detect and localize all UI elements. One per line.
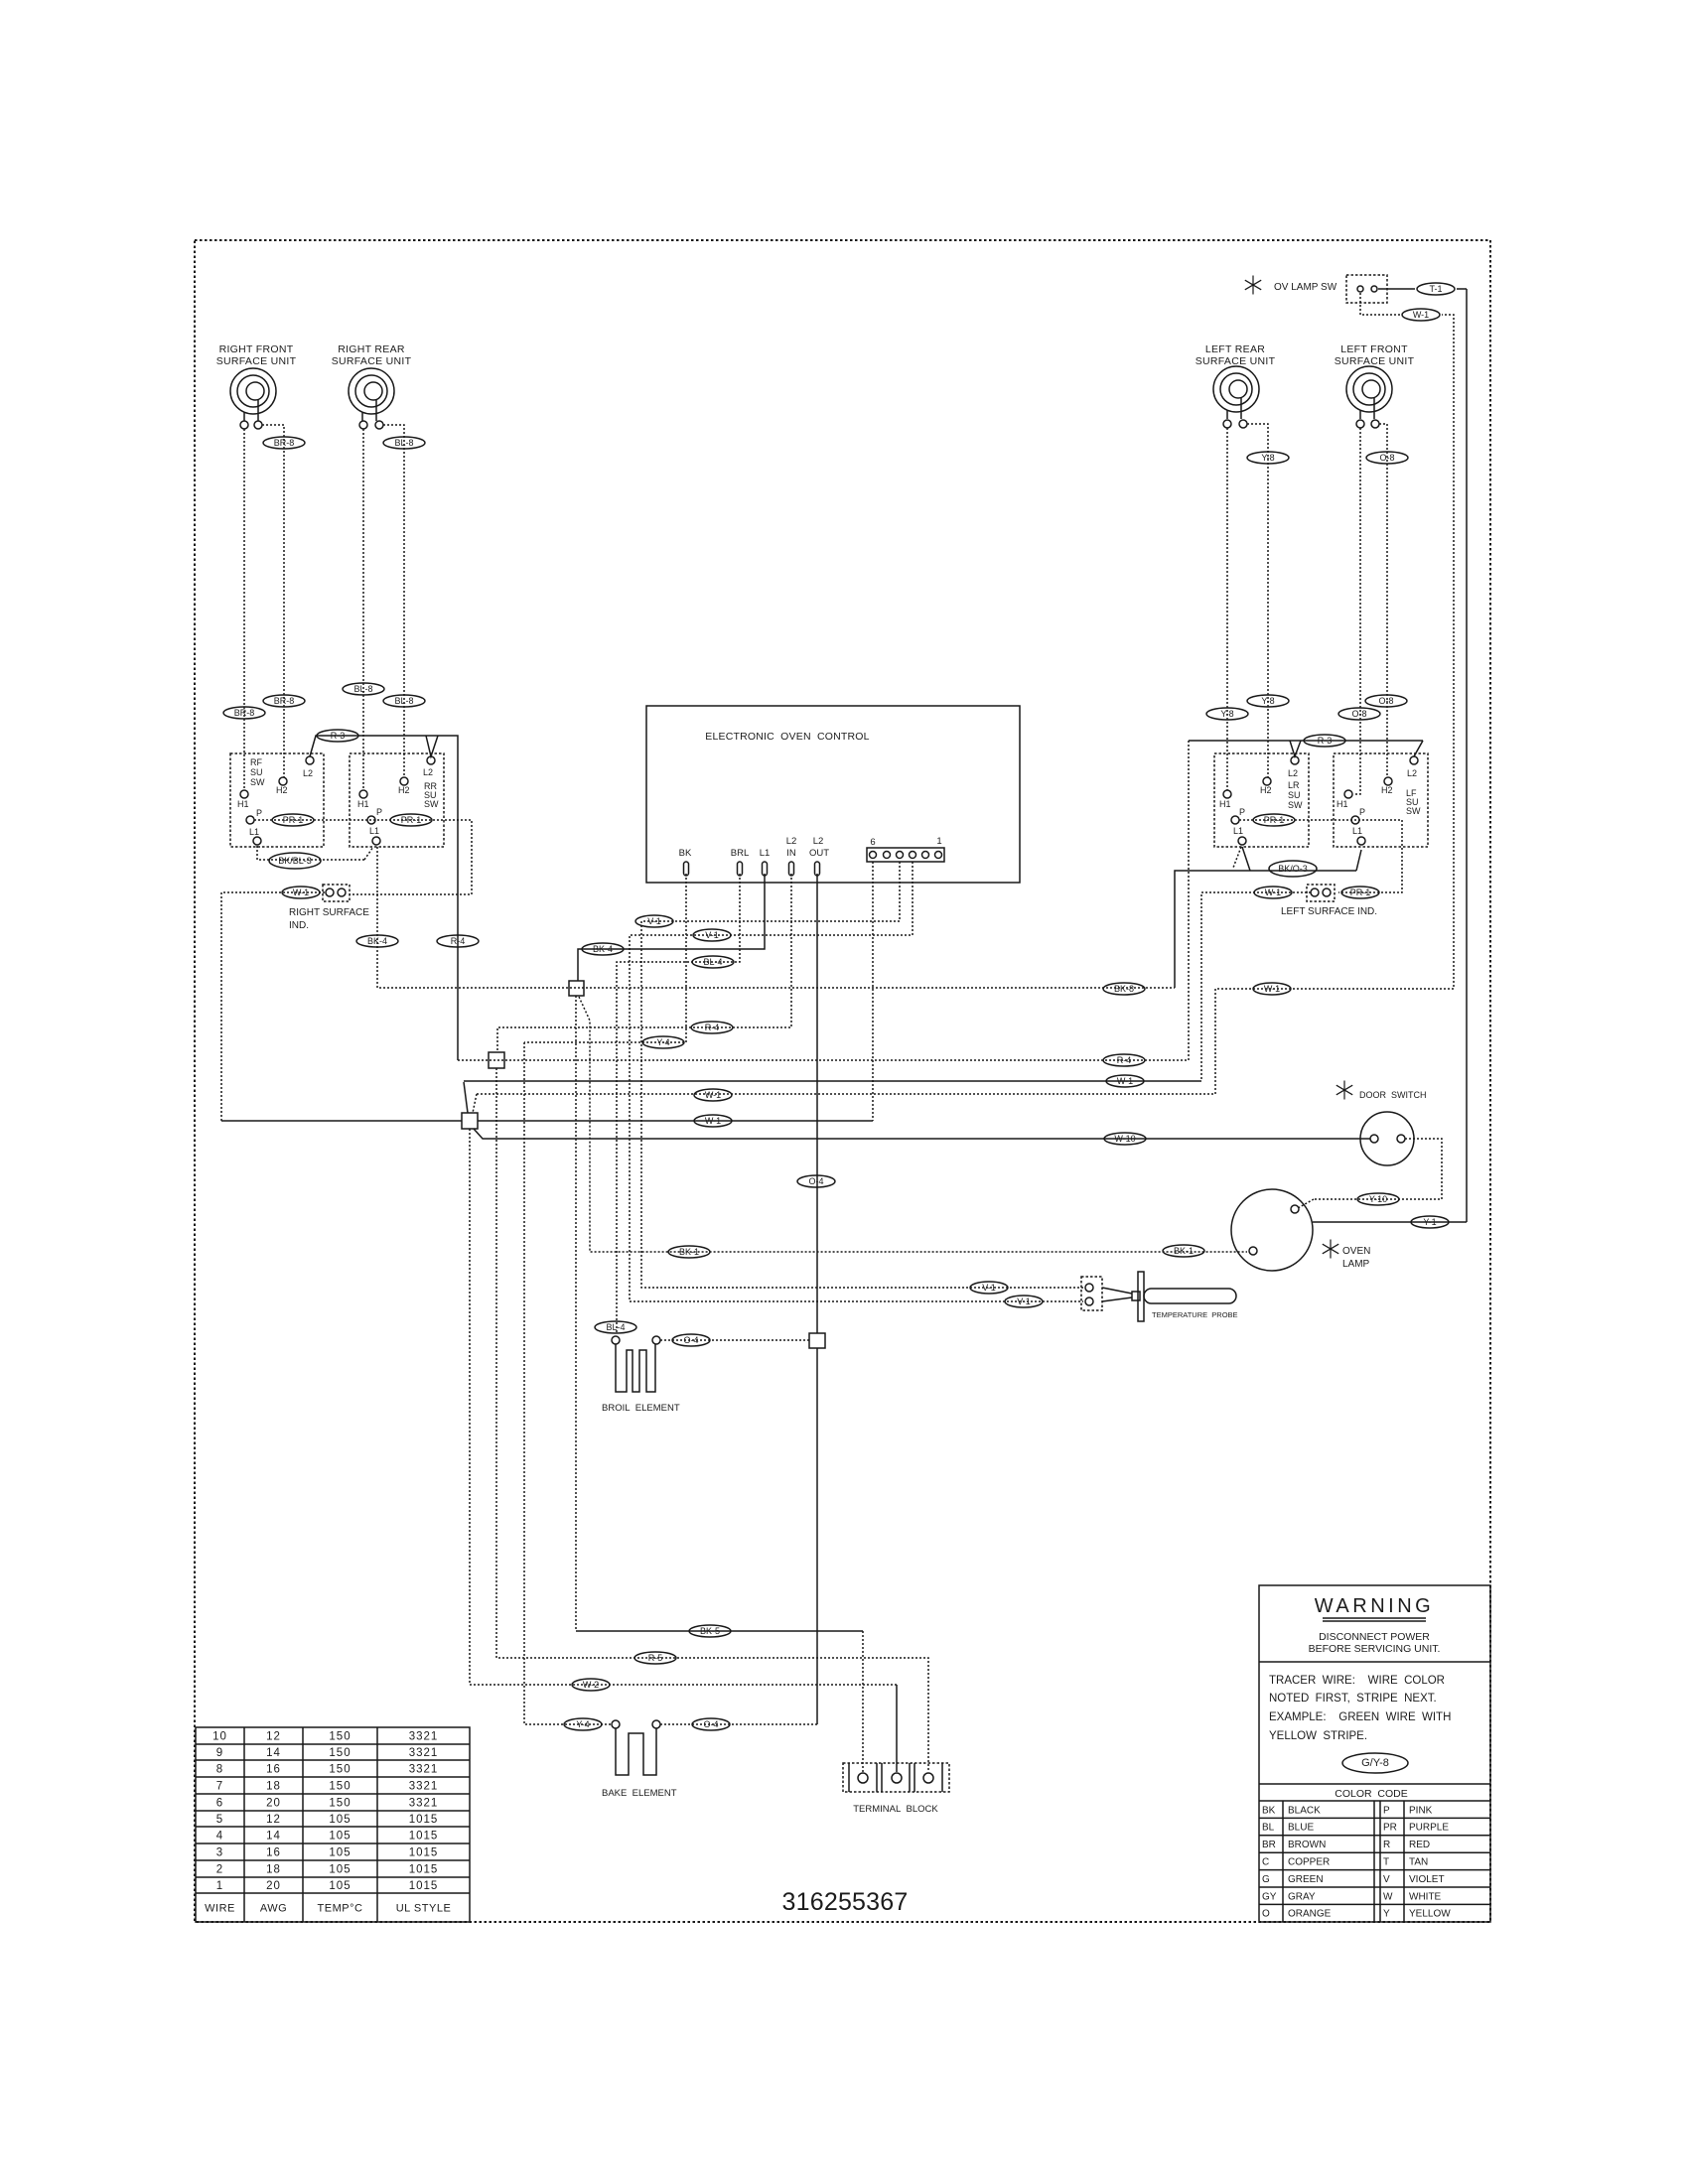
wire BK pin drop (524, 874, 686, 1042)
svg-text:105: 105 (329, 1864, 351, 1876)
svg-text:GY: GY (1262, 1891, 1277, 1902)
svg-text:O-4: O-4 (808, 1176, 823, 1186)
label W-1 y1129 (694, 1115, 732, 1127)
svg-text:RIGHT REAR: RIGHT REAR (338, 343, 405, 355)
wire RF H1 drop (243, 429, 245, 790)
wire RR H2 drop (383, 425, 404, 777)
svg-text:YELLOW: YELLOW (1409, 1909, 1451, 1920)
svg-text:OV LAMP SW: OV LAMP SW (1274, 282, 1337, 293)
label W-1 left ind (1254, 887, 1292, 898)
wire L1 pin to S1 (578, 874, 765, 981)
svg-text:R-3: R-3 (1318, 736, 1333, 746)
svg-text:1015: 1015 (409, 1831, 439, 1843)
svg-text:C: C (1262, 1857, 1269, 1868)
svg-text:105: 105 (329, 1831, 351, 1843)
svg-text:W-1: W-1 (1264, 984, 1280, 994)
label R-5 (634, 1652, 676, 1664)
wire L2-IN feed (497, 874, 791, 1052)
indicator RIGHT SURFACE IND box (323, 885, 350, 901)
wire R-4 horizontal (458, 1059, 1189, 1061)
svg-text:NOTED FIRST, STRIPE NEXT.: NOTED FIRST, STRIPE NEXT. (1269, 1693, 1437, 1705)
svg-text:O-8: O-8 (1378, 696, 1393, 706)
label W-1 y996 (1253, 983, 1291, 995)
svg-text:BL-4: BL-4 (606, 1322, 625, 1332)
wire V-1 B (630, 862, 1083, 1301)
terminals RIGHT REAR (359, 421, 367, 429)
svg-text:EXAMPLE: GREEN WIRE WITH: EXAMPLE: GREEN WIRE WITH (1269, 1711, 1451, 1723)
wire RF-RR L1 link (257, 846, 364, 860)
svg-text:W: W (1383, 1891, 1393, 1902)
svg-text:1015: 1015 (409, 1880, 439, 1892)
svg-text:PURPLE: PURPLE (1409, 1823, 1449, 1834)
svg-text:AWG: AWG (260, 1903, 287, 1915)
switch LF SU SW box (1334, 753, 1428, 847)
svg-text:P: P (1239, 807, 1245, 817)
junction square S4 (809, 1333, 825, 1348)
label O-8 H1 (1338, 708, 1380, 720)
oven lamp symbol (1231, 1189, 1313, 1271)
svg-text:PINK: PINK (1409, 1805, 1433, 1816)
label R-3 left (317, 730, 358, 742)
temperature probe body (1132, 1292, 1140, 1300)
svg-text:IN: IN (786, 848, 796, 859)
svg-text:150: 150 (329, 1764, 351, 1776)
wire Y-1 run (1313, 1221, 1467, 1223)
svg-text:W-1: W-1 (705, 1116, 721, 1126)
svg-text:BK: BK (1262, 1805, 1276, 1816)
label W-10 (1104, 1133, 1146, 1145)
label W-1 right ind (282, 887, 320, 898)
svg-text:V-1: V-1 (705, 930, 719, 940)
bake element terminals (612, 1720, 620, 1728)
svg-text:3321: 3321 (409, 1781, 439, 1793)
wire W-1 riser to ovenlampsw (1215, 315, 1454, 1094)
svg-text:OVEN: OVEN (1342, 1246, 1370, 1257)
svg-text:UL STYLE: UL STYLE (396, 1903, 452, 1915)
wire W-10 to door switch (474, 1129, 1370, 1139)
warning divider 1 (1259, 1661, 1490, 1663)
svg-text:3: 3 (216, 1847, 223, 1859)
svg-text:H2: H2 (1260, 785, 1272, 795)
svg-text:SURFACE UNIT: SURFACE UNIT (216, 355, 297, 367)
label W-1 lamp switch (1402, 309, 1440, 321)
svg-text:ELECTRONIC OVEN CONTROL: ELECTRONIC OVEN CONTROL (705, 731, 869, 743)
svg-text:BK-4: BK-4 (593, 944, 613, 954)
svg-text:1: 1 (936, 836, 941, 847)
door switch symbol (1360, 1112, 1414, 1165)
svg-text:BEFORE SERVICING UNIT.: BEFORE SERVICING UNIT. (1309, 1643, 1441, 1655)
EOC pins (684, 862, 689, 876)
wire W-1 main horizontal (221, 1120, 462, 1122)
svg-text:SU: SU (1288, 790, 1301, 800)
svg-text:PR-1: PR-1 (1264, 815, 1285, 825)
wire RR L1 to BK-4 (376, 847, 378, 988)
svg-text:W-1: W-1 (1413, 310, 1429, 320)
EOC connector block (867, 848, 944, 862)
wire W-2 drop (470, 1129, 897, 1685)
svg-text:V-1: V-1 (647, 916, 661, 926)
terminals LEFT REAR (1223, 420, 1231, 428)
svg-text:O-4: O-4 (703, 1719, 718, 1729)
svg-text:16: 16 (266, 1764, 281, 1776)
svg-text:RF: RF (250, 757, 262, 767)
indicator LEFT SURFACE IND box (1307, 885, 1335, 901)
label O-4 bake (692, 1718, 730, 1730)
svg-text:BROWN: BROWN (1288, 1840, 1326, 1850)
label G/Y-8 (1342, 1753, 1408, 1773)
wire gauge table (196, 1727, 470, 1922)
label BK-1 left (668, 1246, 710, 1258)
svg-text:3321: 3321 (409, 1747, 439, 1759)
terminal block terminals (858, 1773, 868, 1783)
label Y-8 top (1247, 452, 1289, 464)
svg-text:BK-4: BK-4 (367, 936, 387, 946)
svg-text:BK-5: BK-5 (700, 1626, 720, 1636)
label PR-1 RR (390, 814, 432, 826)
svg-text:COLOR CODE: COLOR CODE (1335, 1788, 1408, 1800)
svg-text:G: G (1262, 1874, 1270, 1885)
svg-text:LEFT FRONT: LEFT FRONT (1340, 343, 1408, 355)
broil element (616, 1344, 655, 1392)
svg-text:Y-8: Y-8 (1261, 453, 1274, 463)
svg-text:12: 12 (266, 1731, 281, 1743)
wire LR L1 riser (1242, 847, 1250, 871)
svg-text:105: 105 (329, 1847, 351, 1859)
svg-text:W-1: W-1 (705, 1090, 721, 1100)
svg-text:14: 14 (266, 1747, 281, 1759)
svg-text:RED: RED (1409, 1840, 1430, 1850)
surface unit coil LEFT FRONT (1346, 366, 1392, 419)
svg-text:RIGHT SURFACE: RIGHT SURFACE (289, 907, 369, 918)
oven lamp switch box (1346, 275, 1387, 303)
label Y-4 mid (642, 1036, 684, 1048)
wire O-4 broil link (660, 1339, 809, 1341)
svg-text:L1: L1 (760, 848, 771, 859)
svg-text:105: 105 (329, 1880, 351, 1892)
label BL-8 H2 (383, 695, 425, 707)
svg-text:BAKE ELEMENT: BAKE ELEMENT (602, 1788, 677, 1799)
label BK-4 left (356, 935, 398, 947)
wire R-5 drop (496, 1068, 928, 1772)
switch RR SU SW terminals (427, 756, 435, 764)
terminal block outer (843, 1763, 949, 1792)
svg-text:R-3: R-3 (331, 731, 346, 741)
svg-text:BK/BL-3: BK/BL-3 (278, 856, 312, 866)
switch RF SU SW terminals (306, 756, 314, 764)
svg-text:3321: 3321 (409, 1764, 439, 1776)
svg-text:L1: L1 (369, 826, 379, 836)
svg-text:IND.: IND. (289, 920, 309, 931)
wire RR H1 drop (362, 429, 364, 790)
wire R-3 run left-side (1189, 740, 1423, 742)
label BK-5 (689, 1625, 731, 1637)
switch RF SU SW box (230, 753, 324, 847)
wire Y-4 drop (524, 1042, 612, 1724)
label PR-1 LR (1253, 814, 1295, 826)
svg-text:PR-1: PR-1 (401, 815, 422, 825)
svg-text:150: 150 (329, 1731, 351, 1743)
svg-text:316255367: 316255367 (782, 1888, 909, 1916)
svg-text:6: 6 (216, 1798, 223, 1810)
svg-text:P: P (256, 808, 262, 818)
svg-text:BL-8: BL-8 (353, 684, 372, 694)
svg-text:BK-1: BK-1 (1174, 1246, 1194, 1256)
svg-text:150: 150 (329, 1747, 351, 1759)
label Y-8 H1 (1206, 708, 1248, 720)
svg-text:BL-8: BL-8 (394, 438, 413, 448)
label W-1 y1089 (1106, 1075, 1144, 1087)
svg-text:PR: PR (1383, 1823, 1397, 1834)
label V-1 B2 (1005, 1296, 1043, 1307)
svg-text:10: 10 (212, 1731, 227, 1743)
label W-2 (572, 1679, 610, 1691)
label Y-1 (1411, 1216, 1449, 1228)
svg-text:P: P (1383, 1805, 1390, 1816)
svg-text:H1: H1 (1336, 799, 1348, 809)
svg-text:6: 6 (870, 837, 875, 848)
temperature probe connector (1081, 1277, 1102, 1310)
svg-text:SW: SW (1406, 806, 1421, 816)
label BK-4 mid (582, 943, 624, 955)
svg-text:O-8: O-8 (1379, 453, 1394, 463)
label PR-1 left ind (1341, 887, 1379, 898)
wire LF L2 drop from R-3 (1414, 741, 1423, 756)
svg-text:18: 18 (266, 1864, 281, 1876)
wire LR H2 drop (1247, 424, 1268, 777)
svg-text:R-4: R-4 (451, 936, 466, 946)
label O-4 on riser (797, 1175, 835, 1187)
switch RR SU SW box (350, 753, 444, 847)
wire W-1 right indicator (221, 892, 326, 1121)
svg-text:4: 4 (216, 1831, 223, 1843)
svg-text:L1: L1 (1352, 826, 1362, 836)
wire BK-1 branch (579, 997, 1247, 1252)
wire R-3 run right-front (310, 736, 458, 1060)
switch LR SU SW box (1214, 753, 1309, 847)
label BL-4 mid (692, 956, 734, 968)
svg-text:8: 8 (216, 1764, 223, 1776)
label R-3 right (1304, 735, 1345, 747)
svg-text:LEFT SURFACE IND.: LEFT SURFACE IND. (1281, 906, 1377, 917)
label R-4 mid (691, 1022, 733, 1033)
svg-text:3321: 3321 (409, 1798, 439, 1810)
svg-text:BLACK: BLACK (1288, 1805, 1321, 1816)
color code table (1259, 1801, 1490, 1922)
wire BK-5 drop (575, 996, 577, 1631)
label V-1 A1 (635, 915, 673, 927)
label Y-8 H2 (1247, 695, 1289, 707)
svg-text:L2: L2 (1288, 768, 1298, 778)
wire W-1 upper horizontal (464, 1082, 468, 1113)
junction square S1 (569, 981, 584, 996)
svg-text:P: P (376, 807, 382, 817)
svg-text:V: V (1383, 1874, 1390, 1885)
svg-text:VIOLET: VIOLET (1409, 1874, 1445, 1885)
label BL-4 (595, 1321, 636, 1333)
wire BRL pin drop (617, 874, 740, 1332)
switch LR SU SW terminals (1291, 756, 1299, 764)
svg-text:BR-8: BR-8 (274, 438, 295, 448)
svg-text:L2: L2 (303, 768, 313, 778)
svg-text:RIGHT FRONT: RIGHT FRONT (219, 343, 294, 355)
svg-text:1: 1 (216, 1880, 223, 1892)
label Y-4 bake (564, 1718, 602, 1730)
label BK/BL-3 (269, 853, 321, 869)
svg-text:BK-8: BK-8 (1114, 984, 1134, 994)
label BL-8 top (383, 437, 425, 449)
svg-text:5: 5 (216, 1814, 223, 1826)
svg-text:Y: Y (1383, 1909, 1390, 1920)
svg-text:GRAY: GRAY (1288, 1891, 1316, 1902)
label V-1 B1 (693, 929, 731, 941)
wire W-1 from lamp switch (1360, 293, 1400, 315)
svg-text:P: P (1359, 807, 1365, 817)
label BK-1 right (1163, 1245, 1204, 1257)
label W-1 y1102 (694, 1089, 732, 1101)
svg-text:YELLOW STRIPE.: YELLOW STRIPE. (1269, 1730, 1367, 1742)
wire PR-1 right pair (254, 820, 472, 894)
svg-text:BROIL ELEMENT: BROIL ELEMENT (602, 1403, 680, 1414)
svg-text:TRACER WIRE: WIRE COLOR: TRACER WIRE: WIRE COLOR (1269, 1675, 1445, 1687)
svg-text:L2: L2 (1407, 768, 1417, 778)
warning box outer (1259, 1585, 1490, 1922)
svg-text:R-4: R-4 (705, 1023, 720, 1032)
svg-text:105: 105 (329, 1814, 351, 1826)
svg-text:BR-8: BR-8 (234, 708, 255, 718)
svg-text:OUT: OUT (809, 848, 829, 859)
broil element terminals (612, 1336, 620, 1344)
svg-text:BR-8: BR-8 (274, 696, 295, 706)
svg-text:SW: SW (424, 799, 439, 809)
label BK/O-3 (1269, 861, 1317, 877)
wire LF H2 drop (1379, 424, 1387, 777)
wire L2-OUT drop (816, 874, 818, 1333)
svg-text:BL: BL (1262, 1823, 1275, 1834)
wire O-4 bake link (660, 1723, 817, 1725)
svg-text:H2: H2 (276, 785, 288, 795)
wire W-1 to connector (872, 862, 874, 1121)
svg-text:BL-8: BL-8 (394, 696, 413, 706)
temperature probe flange (1138, 1272, 1144, 1321)
svg-text:TERMINAL BLOCK: TERMINAL BLOCK (853, 1804, 938, 1815)
label BK-8 (1103, 983, 1145, 995)
svg-text:1015: 1015 (409, 1864, 439, 1876)
svg-text:O-8: O-8 (1351, 709, 1366, 719)
svg-text:W-10: W-10 (1114, 1134, 1135, 1144)
bake element (616, 1728, 656, 1775)
svg-text:DISCONNECT POWER: DISCONNECT POWER (1319, 1631, 1430, 1643)
svg-text:BK-1: BK-1 (679, 1247, 699, 1257)
svg-text:L1: L1 (1233, 826, 1243, 836)
label R-4 left (437, 935, 479, 947)
svg-text:Y-8: Y-8 (1261, 696, 1274, 706)
electronic oven control box (646, 706, 1020, 883)
svg-text:20: 20 (266, 1880, 281, 1892)
svg-text:R-5: R-5 (648, 1653, 663, 1663)
svg-text:BRL: BRL (731, 848, 749, 859)
page border frame (195, 240, 1490, 1922)
svg-text:LAMP: LAMP (1342, 1259, 1370, 1270)
svg-text:SU: SU (250, 767, 263, 777)
wire LR L2 V-joint (1290, 741, 1301, 756)
label BR-8 top (263, 437, 305, 449)
label R-4 right (1103, 1054, 1145, 1066)
svg-text:COPPER: COPPER (1288, 1857, 1330, 1868)
svg-text:H1: H1 (237, 799, 249, 809)
oven lamp asterisk (1323, 1240, 1338, 1259)
svg-text:L2: L2 (813, 836, 824, 847)
svg-text:2: 2 (216, 1864, 223, 1876)
svg-text:R: R (1383, 1840, 1390, 1850)
svg-text:20: 20 (266, 1798, 281, 1810)
svg-text:12: 12 (266, 1814, 281, 1826)
svg-text:Y-1: Y-1 (1423, 1217, 1436, 1227)
junction square S3 (462, 1113, 478, 1129)
label V-1 A2 (970, 1282, 1008, 1294)
svg-text:O: O (1262, 1909, 1270, 1920)
temperature probe leads (1102, 1288, 1132, 1294)
svg-text:BR: BR (1262, 1840, 1276, 1850)
svg-text:WIRE: WIRE (205, 1903, 235, 1915)
wire RR L2 V-joint (426, 736, 438, 756)
oven lamp switch asterisk (1245, 276, 1261, 295)
wire Y-10 run (1314, 1139, 1442, 1199)
svg-text:Y-10: Y-10 (1369, 1194, 1387, 1204)
svg-text:14: 14 (266, 1831, 281, 1843)
label BR-8 H1 (223, 707, 265, 719)
wire BK-8 horizontal (379, 987, 1175, 989)
svg-text:SURFACE UNIT: SURFACE UNIT (1196, 355, 1276, 367)
surface unit coil LEFT REAR (1213, 366, 1259, 419)
svg-text:PR-1: PR-1 (283, 815, 304, 825)
wire R-4 riser right (1188, 741, 1190, 1060)
svg-text:9: 9 (216, 1747, 223, 1759)
switch LF SU SW terminals (1410, 756, 1418, 764)
svg-text:Y-4: Y-4 (576, 1719, 589, 1729)
svg-text:16: 16 (266, 1847, 281, 1859)
wire RF H2 drop (262, 425, 284, 777)
svg-text:W-1: W-1 (1265, 887, 1281, 897)
wire LR H1 drop (1226, 428, 1228, 790)
svg-text:LR: LR (1288, 780, 1300, 790)
terminals LEFT FRONT (1356, 420, 1364, 428)
svg-text:SURFACE UNIT: SURFACE UNIT (332, 355, 412, 367)
svg-text:3321: 3321 (409, 1731, 439, 1743)
svg-text:H2: H2 (398, 785, 410, 795)
svg-text:1015: 1015 (409, 1814, 439, 1826)
svg-text:BLUE: BLUE (1288, 1823, 1314, 1834)
svg-text:L1: L1 (249, 827, 259, 837)
label O-4 broil (672, 1334, 710, 1346)
svg-text:Y-8: Y-8 (1220, 709, 1233, 719)
svg-text:TEMPERATURE PROBE: TEMPERATURE PROBE (1152, 1310, 1238, 1319)
svg-text:SW: SW (1288, 800, 1303, 810)
svg-text:18: 18 (266, 1781, 281, 1793)
warning divider 2 (1259, 1783, 1490, 1785)
svg-text:R-4: R-4 (1117, 1055, 1132, 1065)
svg-text:L2: L2 (423, 767, 433, 777)
svg-text:SURFACE UNIT: SURFACE UNIT (1335, 355, 1415, 367)
label PR-1 RF (272, 814, 314, 826)
wire W-1 left indicator (1201, 892, 1311, 1081)
svg-text:T: T (1383, 1857, 1389, 1868)
label T-1 (1417, 283, 1455, 295)
svg-text:7: 7 (216, 1781, 223, 1793)
svg-text:TAN: TAN (1409, 1857, 1428, 1868)
svg-text:W-1: W-1 (293, 887, 309, 897)
label O-8 H2 (1365, 695, 1407, 707)
svg-text:TEMP°C: TEMP°C (318, 1903, 363, 1915)
